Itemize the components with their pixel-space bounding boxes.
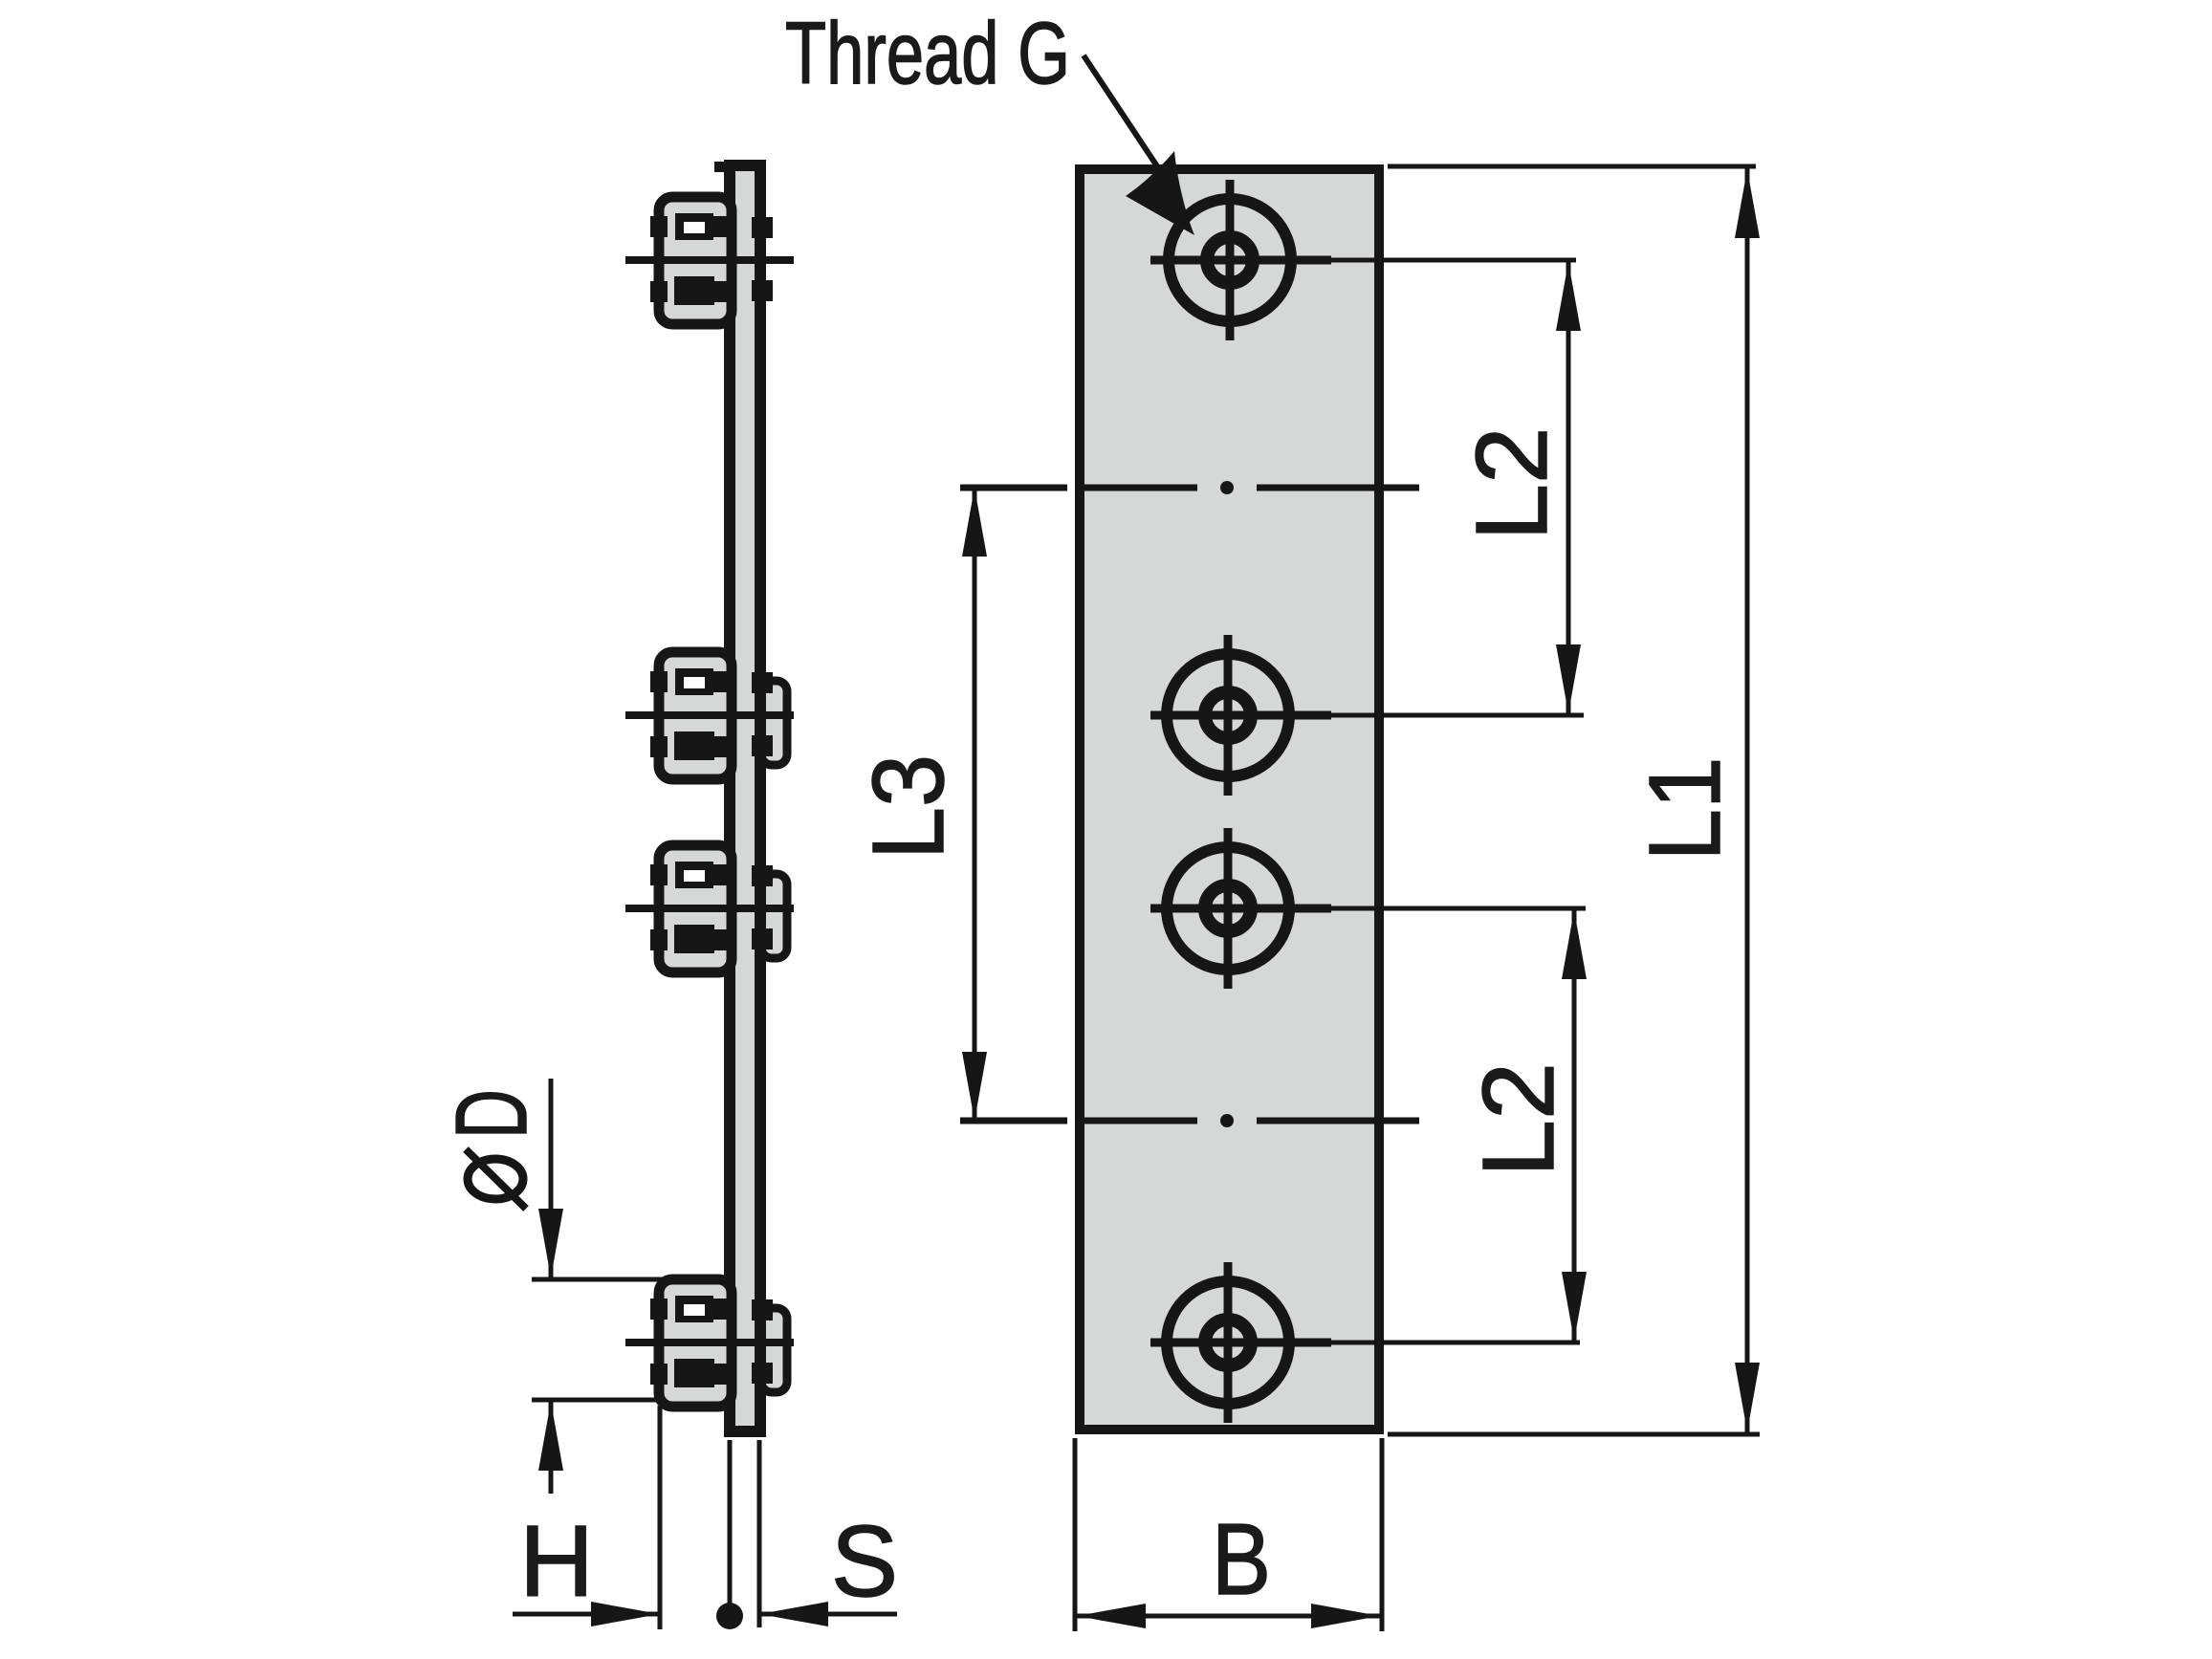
svg-text:B: B xyxy=(1212,1503,1271,1616)
svg-text:Thread G: Thread G xyxy=(785,5,1070,102)
svg-text:D: D xyxy=(435,1089,548,1139)
svg-text:L1: L1 xyxy=(1629,757,1741,862)
svg-text:S: S xyxy=(831,1505,898,1618)
svg-text:L2: L2 xyxy=(1462,1062,1575,1177)
svg-text:L3: L3 xyxy=(852,754,965,860)
svg-text:H: H xyxy=(519,1505,594,1618)
svg-text:L2: L2 xyxy=(1456,427,1568,541)
